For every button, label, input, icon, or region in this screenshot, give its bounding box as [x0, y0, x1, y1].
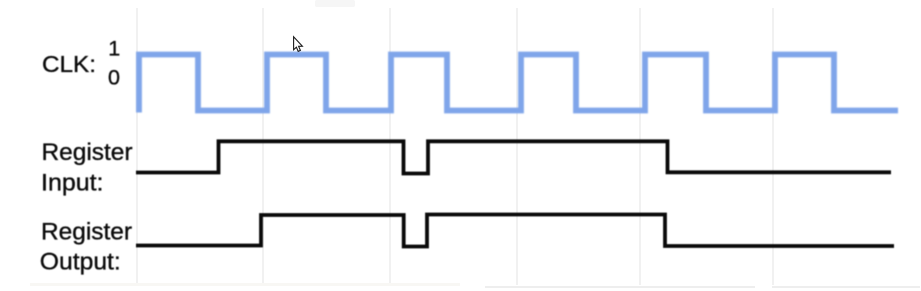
svg-text:Input:: Input: [41, 170, 104, 197]
svg-text:CLK:: CLK: [42, 51, 96, 77]
svg-text:1: 1 [108, 37, 120, 61]
svg-text:Output:: Output: [40, 249, 121, 276]
svg-text:0: 0 [108, 65, 120, 89]
svg-text:Register: Register [41, 219, 132, 246]
svg-text:Register: Register [42, 139, 133, 166]
